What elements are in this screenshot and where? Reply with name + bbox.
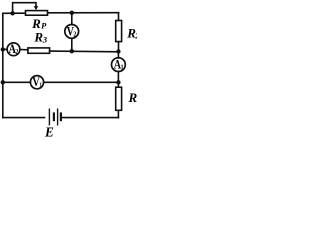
wire A2 to R3: [20, 49, 28, 51]
svg-text:E: E: [44, 125, 54, 139]
battery E long plate 1: [48, 109, 50, 126]
wire border to V1: [3, 81, 31, 83]
node junction A1 bottom: [116, 80, 120, 84]
wire left border: [2, 13, 4, 117]
resistor R2: [116, 21, 122, 42]
svg-text:2: 2: [15, 48, 18, 56]
node junction J1: [10, 11, 14, 15]
wire V2 lower stub: [71, 38, 73, 51]
wire V2 upper stub: [71, 13, 73, 25]
rheostat RP: [26, 11, 48, 16]
ammeter A2: [7, 43, 20, 56]
battery E short plate 2: [60, 112, 62, 121]
node junction left border A2 row: [1, 47, 5, 51]
wire A1 lower stub: [117, 72, 119, 83]
resistor R3: [28, 48, 50, 53]
resistor R1: [116, 87, 122, 110]
svg-text:1: 1: [121, 64, 124, 72]
wire top-left horizontal to rheostat: [3, 12, 25, 14]
wire border to A2: [3, 48, 7, 50]
battery E long plate 2: [57, 109, 59, 126]
wire bottom right: [62, 117, 118, 119]
node junction V2 bottom: [70, 49, 74, 53]
wire wiper loop: [13, 3, 36, 14]
voltmeter V2: [65, 25, 79, 39]
node junction A1 top: [116, 49, 120, 53]
wire V1 to A1 bottom junction: [44, 81, 119, 83]
node junction left border V1 row: [1, 80, 5, 84]
wire top from RP to top-right corner: [48, 12, 118, 14]
voltmeter V1: [30, 76, 43, 89]
svg-text:3: 3: [42, 34, 48, 44]
node junction top V2: [70, 11, 74, 15]
svg-text:R: R: [128, 90, 138, 105]
ammeter A1: [112, 58, 126, 72]
battery E short plate 1: [53, 112, 55, 121]
svg-text:1: 1: [39, 82, 42, 89]
svg-text:2: 2: [73, 31, 76, 39]
wire junction down to R1: [117, 82, 119, 87]
wire R3 to right branch: [50, 50, 119, 53]
wiper arrowhead: [34, 6, 39, 10]
wire R2 to A1 junction: [118, 42, 120, 52]
wire bottom left: [3, 117, 45, 119]
svg-text:R: R: [33, 30, 43, 45]
svg-text:2: 2: [134, 30, 137, 40]
wire top-right corner down to R2: [118, 13, 120, 21]
wire A1 upper stub: [117, 52, 119, 59]
wire R1 to bottom corner: [117, 110, 119, 117]
